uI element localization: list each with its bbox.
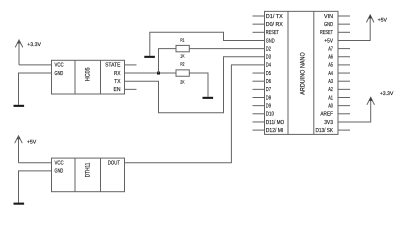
pin A1 (right) stub of Arduino	[338, 97, 350, 99]
svg-text:A0: A0	[328, 102, 333, 109]
power +5V symbol (right) arrowhead	[366, 15, 374, 23]
wire HC05 GND pin to ground	[19, 73, 52, 105]
wire DTH11 DOUT pin to Arduino D4 pin	[125, 65, 265, 163]
svg-text:RX: RX	[114, 71, 121, 77]
pin D10 stub of Arduino	[253, 113, 265, 115]
pin D12/ MI stub of Arduino	[253, 129, 265, 131]
svg-text:D2: D2	[266, 45, 271, 52]
svg-text:D4: D4	[266, 63, 272, 69]
pin A6 (right) stub of Arduino	[338, 56, 350, 58]
svg-text:D3: D3	[266, 54, 271, 61]
pin VIN (right) stub of Arduino	[338, 15, 350, 17]
svg-text:STATE: STATE	[105, 62, 121, 69]
svg-text:3V3: 3V3	[324, 119, 333, 126]
pin D6 stub of Arduino	[253, 80, 265, 82]
pin AREF (right) stub of Arduino	[338, 113, 350, 115]
pin A5 (right) stub of Arduino	[338, 64, 350, 66]
pin D5 stub of Arduino	[253, 72, 265, 74]
wire +3.3V to HC05 VCC pin	[19, 64, 52, 66]
pin D11/ MO stub of Arduino	[253, 121, 265, 123]
svg-text:GND: GND	[55, 70, 64, 77]
wire +5V to DTH11 VCC pin	[19, 162, 52, 164]
svg-text:A5: A5	[328, 63, 333, 69]
svg-text:+5V: +5V	[324, 38, 333, 44]
svg-text:+3.3V: +3.3V	[27, 42, 41, 48]
pin RESET stub of Arduino	[253, 31, 265, 33]
svg-text:R2: R2	[180, 62, 185, 67]
svg-text:GND: GND	[55, 168, 64, 175]
power +3.3V symbol (HC05 supply) arrowhead	[15, 40, 23, 48]
svg-text:DOUT: DOUT	[108, 160, 121, 167]
pin STATE stub of HC05	[125, 64, 137, 66]
power +5V symbol stem wire	[18, 136, 20, 163]
wire resistor R1 to Arduino D2 pin	[189, 48, 264, 50]
svg-text:D8: D8	[266, 94, 271, 101]
IC U1 HC05 body	[52, 60, 125, 94]
svg-text:RESET: RESET	[320, 29, 333, 36]
ground symbol under DTH11	[14, 203, 25, 205]
svg-text:D13/ SK: D13/ SK	[316, 127, 334, 134]
ground symbol under HC05	[14, 105, 25, 107]
svg-text:VIN: VIN	[324, 14, 333, 20]
power +3.3V symbol stem wire	[18, 40, 20, 65]
wire Arduino +5V pin to +5V symbol	[338, 15, 370, 40]
svg-text:TX: TX	[114, 79, 120, 85]
wire ground to Arduino GND pin	[150, 32, 265, 56]
ground symbol on R2 net	[203, 97, 214, 99]
resistor R1	[176, 45, 189, 51]
pin D1/ TX stub of Arduino	[253, 15, 265, 17]
svg-text:GND: GND	[324, 21, 333, 28]
pin GND (right) stub of Arduino	[338, 23, 350, 25]
svg-text:A1: A1	[328, 95, 333, 101]
svg-text:D0/ RX: D0/ RX	[266, 21, 283, 28]
pin D8 stub of Arduino	[253, 97, 265, 99]
svg-text:AREF: AREF	[320, 112, 333, 118]
svg-text:1K: 1K	[180, 54, 185, 59]
svg-text:2K: 2K	[180, 79, 185, 84]
pin EN stub of HC05	[125, 88, 137, 90]
svg-text:A6: A6	[328, 54, 333, 61]
svg-text:D10: D10	[266, 111, 274, 118]
pin A0 (right) stub of Arduino	[338, 105, 350, 107]
ground symbol on Arduino GND net	[144, 56, 155, 58]
svg-text:VCC: VCC	[55, 160, 64, 167]
wire HC05 RX pin to node A	[125, 72, 177, 74]
pin D0/ RX stub of Arduino	[253, 23, 265, 25]
pin D7 stub of Arduino	[253, 88, 265, 90]
pin A4 (right) stub of Arduino	[338, 72, 350, 74]
svg-text:HC05: HC05	[84, 67, 91, 81]
wire DTH11 GND pin to ground	[19, 171, 52, 203]
svg-text:EN: EN	[114, 87, 121, 93]
svg-text:D5: D5	[266, 71, 271, 77]
svg-text:D6: D6	[266, 78, 271, 85]
pin D13/ SK (right) stub of Arduino	[338, 129, 350, 131]
svg-text:DTH11: DTH11	[84, 162, 91, 177]
node A junction dot	[157, 72, 160, 75]
power +3.3V symbol (right) arrowhead	[367, 97, 375, 105]
pin D9 stub of Arduino	[253, 105, 265, 107]
svg-text:D12/ MI: D12/ MI	[266, 127, 284, 134]
wire node A up to resistor R1	[159, 49, 177, 73]
pin A3 (right) stub of Arduino	[338, 80, 350, 82]
svg-text:GND: GND	[266, 37, 275, 44]
svg-text:+5V: +5V	[378, 17, 388, 23]
IC U2 ARDUINO NANO body	[265, 11, 339, 134]
wire HC05 TX pin to Arduino D3 pin	[125, 57, 265, 113]
svg-text:R1: R1	[180, 37, 185, 42]
pin A2 (right) stub of Arduino	[338, 88, 350, 90]
svg-text:+5V: +5V	[27, 139, 37, 145]
IC U3 DTH11 body	[52, 158, 125, 192]
wire Arduino 3V3 pin to +3.3V symbol	[338, 97, 371, 122]
svg-text:D7: D7	[266, 87, 271, 93]
svg-text:D9: D9	[266, 102, 271, 109]
wire resistor R2 to ground	[189, 73, 208, 97]
svg-text:A2: A2	[328, 86, 333, 93]
svg-text:+3.3V: +3.3V	[380, 91, 394, 97]
pin RESET (right) stub of Arduino	[338, 31, 350, 33]
power +5V symbol (DTH11 supply) arrowhead	[15, 136, 23, 144]
svg-text:RESET: RESET	[266, 29, 279, 36]
svg-text:D11/ MO: D11/ MO	[266, 119, 285, 126]
svg-text:A7: A7	[328, 46, 333, 52]
svg-text:A3: A3	[328, 78, 333, 85]
svg-text:D1/ TX: D1/ TX	[266, 13, 283, 20]
pin A7 (right) stub of Arduino	[338, 48, 350, 50]
resistor R2	[176, 70, 189, 76]
svg-text:ARDUINO NANO: ARDUINO NANO	[299, 52, 306, 95]
svg-text:A4: A4	[328, 71, 333, 77]
svg-text:VCC: VCC	[55, 62, 64, 69]
